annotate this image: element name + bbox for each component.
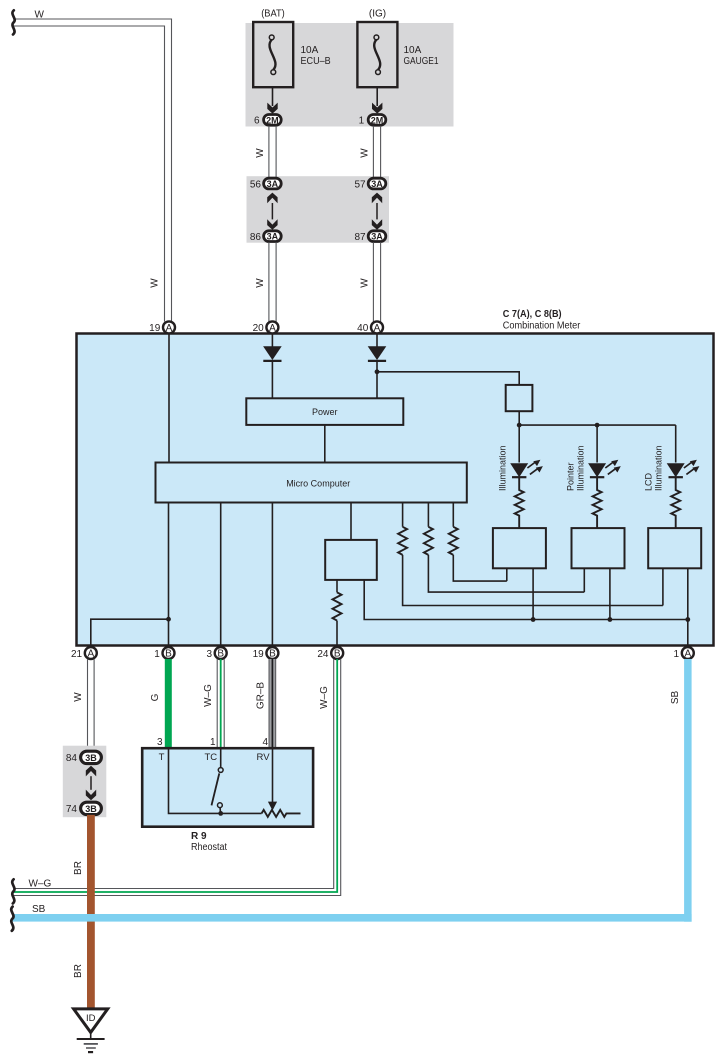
wire MC to U6 bbox=[350, 503, 352, 540]
svg-text:84: 84 bbox=[66, 753, 78, 764]
resistor R1 bbox=[398, 527, 407, 555]
svg-text:W: W bbox=[359, 148, 370, 158]
svg-text:LCD: LCD bbox=[644, 472, 654, 491]
wire fuse F1 to connector 2M bbox=[272, 87, 274, 106]
wire R4 to pin 24B bbox=[336, 621, 338, 647]
svg-text:19: 19 bbox=[149, 323, 161, 334]
connector 2M pin 6 bbox=[264, 115, 282, 126]
svg-text:Pointer: Pointer bbox=[565, 462, 575, 491]
wire Power to micro computer bbox=[324, 425, 326, 463]
svg-text:1: 1 bbox=[154, 649, 160, 660]
svg-text:3: 3 bbox=[157, 737, 163, 748]
wire U4 right stub bbox=[609, 568, 611, 619]
svg-text:(BAT): (BAT) bbox=[261, 9, 285, 20]
wire G pin1B to rheostat bbox=[165, 659, 172, 749]
connector 3B pin 74 bbox=[81, 802, 102, 814]
svg-text:TC: TC bbox=[205, 752, 218, 763]
svg-text:1: 1 bbox=[674, 649, 680, 660]
svg-text:A: A bbox=[684, 649, 691, 660]
svg-text:3A: 3A bbox=[371, 232, 383, 242]
wire node to box U2 bbox=[377, 372, 519, 385]
svg-text:SB: SB bbox=[32, 904, 46, 915]
svg-text:57: 57 bbox=[354, 180, 366, 191]
wire MC to resistor R3 bbox=[452, 503, 454, 527]
wire R3 to rail bbox=[453, 555, 507, 581]
wire U5 right stub to pin 1A bbox=[687, 568, 689, 647]
svg-text:3A: 3A bbox=[267, 232, 279, 242]
wire U5 left stub bbox=[662, 568, 664, 605]
svg-text:2M: 2M bbox=[371, 115, 384, 125]
node on D2 wire bbox=[375, 369, 380, 374]
wire GR-B pin19B to rheostat RV bbox=[269, 659, 276, 749]
resistor R4 bbox=[333, 592, 342, 620]
wire MC to pin 19B bbox=[271, 503, 273, 648]
wire branch to pin 21A bbox=[91, 619, 169, 647]
svg-text:10A: 10A bbox=[404, 45, 422, 56]
svg-text:W–G: W–G bbox=[203, 684, 214, 707]
break symbol W-G wire bbox=[12, 879, 14, 903]
svg-text:Illumination: Illumination bbox=[575, 445, 585, 491]
svg-text:Illumination: Illumination bbox=[654, 445, 664, 491]
svg-text:19: 19 bbox=[253, 649, 265, 660]
resistor R2 bbox=[424, 527, 433, 555]
svg-text:1: 1 bbox=[210, 737, 216, 748]
resistor R-led3 bbox=[671, 478, 680, 529]
svg-text:SB: SB bbox=[670, 691, 681, 705]
svg-text:6: 6 bbox=[254, 116, 260, 127]
LED rail horizontal bbox=[519, 424, 676, 426]
svg-text:A: A bbox=[374, 323, 381, 334]
junction block J/B gray (fuse row) bbox=[246, 23, 454, 127]
wire U3 right stub bbox=[532, 568, 534, 619]
node rheostat bbox=[218, 811, 223, 816]
wire MC to resistor R2 bbox=[427, 503, 429, 527]
wire U6 right stub bbox=[364, 580, 688, 620]
meter pin 19 (A) bbox=[163, 321, 175, 333]
Power box bbox=[246, 398, 403, 425]
wire W-G pin3B to rheostat TC bbox=[217, 659, 224, 749]
resistor R-led2 bbox=[593, 478, 602, 529]
ground ID bbox=[74, 1009, 108, 1052]
connector 3B pin 84 bbox=[81, 751, 102, 763]
wire W from battery (top left) bbox=[14, 19, 172, 322]
svg-text:W–G: W–G bbox=[29, 879, 52, 890]
wire MC to pin 1B bbox=[168, 503, 170, 648]
svg-text:W: W bbox=[359, 278, 370, 288]
wire W 2M to 3A (left) bbox=[269, 126, 276, 178]
wire BR 3B to ground bbox=[87, 815, 95, 1008]
svg-text:40: 40 bbox=[357, 323, 369, 334]
meter pin 40 (A) bbox=[371, 321, 383, 333]
meter pin 1 (A) right bbox=[682, 647, 694, 659]
svg-text:Rheostat: Rheostat bbox=[191, 842, 227, 853]
svg-text:86: 86 bbox=[250, 232, 262, 243]
driver box U3 bbox=[493, 528, 546, 568]
svg-text:RV: RV bbox=[257, 752, 271, 763]
connector 3B gray block bbox=[63, 746, 107, 818]
wire pin40 to diode D2 bbox=[376, 334, 378, 347]
svg-text:Illumination: Illumination bbox=[498, 445, 508, 491]
switch lever bbox=[212, 773, 220, 805]
diode D2 bbox=[368, 346, 387, 360]
svg-text:G: G bbox=[150, 693, 161, 701]
break symbol (wire W continuation) bbox=[12, 10, 14, 34]
connector 3A pin 56 bbox=[264, 178, 282, 189]
svg-text:A: A bbox=[166, 323, 173, 334]
svg-text:W–G: W–G bbox=[319, 686, 330, 709]
meter pin 3 (B) bbox=[215, 647, 227, 659]
meter pin 24 (B) bbox=[331, 647, 343, 659]
connector 3A pin 57 bbox=[368, 178, 386, 189]
svg-text:W: W bbox=[150, 278, 161, 288]
svg-text:20: 20 bbox=[253, 323, 265, 334]
svg-text:21: 21 bbox=[71, 649, 83, 660]
node LED rail middle bbox=[595, 423, 600, 428]
combination meter box bbox=[77, 334, 714, 646]
junction arrow 3A-3A (left) bbox=[267, 193, 277, 230]
node rail dot 1 bbox=[531, 617, 536, 622]
svg-text:3A: 3A bbox=[371, 179, 383, 189]
driver box U4 bbox=[572, 528, 625, 568]
node rail dot 2 bbox=[608, 617, 613, 622]
wire D2 to Power bbox=[376, 361, 378, 399]
meter pin 1 (B) bbox=[163, 647, 175, 659]
svg-text:W: W bbox=[73, 692, 84, 702]
svg-text:W: W bbox=[35, 10, 45, 21]
svg-text:10A: 10A bbox=[301, 45, 319, 56]
svg-text:56: 56 bbox=[250, 180, 262, 191]
svg-text:B: B bbox=[217, 649, 224, 660]
LED2 pointer illumination bbox=[588, 460, 621, 478]
node pin1B branch bbox=[166, 617, 171, 622]
svg-text:Combination Meter: Combination Meter bbox=[503, 320, 581, 331]
wire MC to resistor R1 bbox=[402, 503, 404, 527]
svg-text:B: B bbox=[269, 649, 276, 660]
svg-text:4: 4 bbox=[262, 737, 268, 748]
rheostat TC internal wire + switch bbox=[220, 750, 222, 768]
svg-text:R 9: R 9 bbox=[191, 831, 207, 842]
junction block gray (3A connector row) bbox=[247, 176, 390, 243]
LED1 illumination bbox=[510, 460, 543, 478]
svg-text:B: B bbox=[165, 649, 172, 660]
rheostat T internal wire bbox=[169, 750, 262, 814]
wire W 3A to meter pin 20 bbox=[269, 242, 276, 322]
wire fuse F2 to connector 2M bbox=[376, 87, 378, 106]
wire MC to pin 3B bbox=[220, 503, 222, 648]
junction arrow 3A-3A (right) bbox=[372, 193, 382, 230]
svg-text:Micro Computer: Micro Computer bbox=[286, 479, 350, 489]
svg-text:Power: Power bbox=[312, 407, 338, 417]
wire pin19 to micro computer bbox=[168, 334, 170, 463]
connector 3A pin 86 bbox=[264, 231, 282, 242]
svg-text:3B: 3B bbox=[85, 804, 97, 814]
wire W pin21A to 3B bbox=[88, 659, 95, 750]
svg-text:B: B bbox=[334, 649, 341, 660]
wire W-G pin24B down and left bbox=[14, 659, 341, 896]
svg-text:GR–B: GR–B bbox=[256, 682, 267, 710]
wire R2 to rail bbox=[428, 555, 584, 592]
wire rail to LED3 bbox=[675, 425, 677, 462]
wire U6 to resistor R4 bbox=[336, 580, 338, 593]
svg-text:3A: 3A bbox=[267, 179, 279, 189]
rheostat resistance element bbox=[262, 810, 301, 817]
svg-text:74: 74 bbox=[66, 804, 78, 815]
svg-text:A: A bbox=[269, 323, 276, 334]
resistor R3 bbox=[449, 527, 458, 555]
fuse F2 GAUGE1 10A bbox=[357, 22, 397, 87]
wire W 2M to 3A (right) bbox=[373, 126, 380, 178]
svg-text:ECU–B: ECU–B bbox=[301, 56, 331, 67]
meter pin 20 (A) bbox=[266, 321, 278, 333]
box U6 bbox=[325, 540, 377, 580]
svg-text:A: A bbox=[87, 649, 94, 660]
svg-text:24: 24 bbox=[317, 649, 329, 660]
driver box U5 bbox=[648, 528, 701, 568]
svg-text:BR: BR bbox=[73, 861, 84, 875]
wire D1 to Power bbox=[271, 361, 273, 399]
wire U2 to LED rail bbox=[518, 411, 520, 462]
wire R1 to rail bbox=[403, 555, 663, 606]
junction arrow 3B-3B bbox=[86, 766, 96, 800]
rheostat R9 box bbox=[142, 748, 313, 827]
fuse F1 ECU-B 10A bbox=[253, 22, 293, 87]
wire pin20 to diode D1 bbox=[271, 334, 273, 347]
wire rail to LED2 bbox=[596, 425, 598, 462]
rheostat RV internal wire + wiper arrow bbox=[272, 750, 274, 803]
svg-text:3B: 3B bbox=[85, 753, 97, 763]
wire W 3A to meter pin 40 bbox=[373, 242, 380, 322]
svg-text:C 7(A), C 8(B): C 7(A), C 8(B) bbox=[503, 309, 562, 320]
meter pin 21 (A) bbox=[85, 647, 97, 659]
node LED rail left bbox=[517, 423, 522, 428]
svg-text:87: 87 bbox=[354, 232, 366, 243]
svg-text:(IG): (IG) bbox=[369, 9, 386, 20]
svg-text:T: T bbox=[159, 752, 165, 763]
break symbol SB wire bbox=[11, 907, 13, 931]
svg-text:GAUGE1: GAUGE1 bbox=[404, 56, 439, 67]
diode D1 bbox=[263, 346, 282, 360]
wire U3 left stub bbox=[506, 568, 508, 581]
svg-text:BR: BR bbox=[73, 964, 84, 978]
meter pin 19 (B) bbox=[266, 647, 278, 659]
wire SB pin1A down and left bbox=[12, 659, 692, 922]
svg-text:ID: ID bbox=[86, 1013, 96, 1024]
connector 2M pin 1 bbox=[368, 115, 386, 126]
box U2 (regulator) bbox=[506, 385, 533, 411]
svg-text:3: 3 bbox=[206, 649, 212, 660]
wire U4 left stub bbox=[583, 568, 585, 592]
connector 3A pin 87 bbox=[368, 231, 386, 242]
svg-text:W: W bbox=[255, 278, 266, 288]
node rail dot 3 bbox=[685, 617, 690, 622]
micro computer box bbox=[156, 463, 467, 503]
LED3 LCD illumination bbox=[667, 460, 700, 478]
resistor R-led1 bbox=[515, 478, 524, 529]
svg-text:2M: 2M bbox=[266, 115, 279, 125]
svg-text:W: W bbox=[255, 148, 266, 158]
svg-text:1: 1 bbox=[359, 116, 365, 127]
